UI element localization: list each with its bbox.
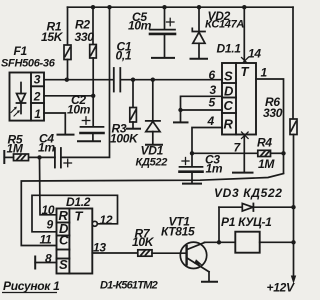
node relay/rail [291, 240, 295, 244]
resistor R5 [4, 154, 28, 161]
svg-text:3: 3 [34, 73, 41, 87]
F1 light arrows [11, 107, 20, 116]
svg-text:0,1: 0,1 [116, 49, 132, 63]
svg-text:9: 9 [47, 218, 54, 232]
F1 photodiode [17, 83, 26, 114]
wire D1.1 pin 3 (D input) [181, 96, 223, 110]
zener VD2 [192, 7, 205, 58]
svg-text:R4: R4 [257, 136, 272, 150]
svg-text:12: 12 [100, 213, 113, 227]
node rail/VD2 [197, 5, 201, 9]
svg-text:C: C [224, 98, 234, 113]
resistor R4 [258, 150, 284, 156]
ground (R3) [127, 128, 140, 130]
svg-text:100K: 100K [110, 132, 139, 146]
diode VD1 [146, 80, 160, 144]
svg-text:VD1: VD1 [141, 144, 164, 158]
svg-text:1: 1 [261, 66, 268, 80]
svg-text:SFH506-36: SFH506-36 [1, 58, 56, 70]
svg-text:1M: 1M [258, 157, 275, 171]
IC D1.2 box [57, 209, 93, 274]
IR receiver F1 box [10, 73, 45, 121]
capacitor C1 [114, 68, 121, 92]
node VD3/rail [291, 205, 295, 209]
node main/R1 [65, 78, 69, 82]
capacitor C5 [150, 7, 175, 57]
capacitor C3 [180, 153, 203, 182]
C2 plus sign [82, 117, 90, 124]
wire D1.2 pin 13 to R7 [92, 252, 138, 254]
node F1 pin2/C2 [91, 94, 95, 98]
node D/C ground [178, 108, 182, 112]
node rail/R2 [91, 5, 95, 9]
wire relay to rail [260, 241, 294, 243]
wire R2 bottom to C2 [92, 58, 94, 126]
node rail/drop line [107, 5, 111, 9]
ground (C2) [78, 140, 100, 142]
C4 plus sign [64, 159, 72, 166]
svg-text:R: R [224, 117, 234, 132]
diode VD3 [219, 204, 294, 212]
ground (VD2) [191, 58, 208, 60]
op IC D1.1 box [222, 63, 256, 135]
wire D1.1 out to D1.2 pin 11 (long net) [21, 174, 283, 246]
resistor R3 [130, 80, 137, 128]
svg-text:T: T [241, 64, 250, 79]
svg-text:1m: 1m [206, 162, 223, 176]
svg-text:C: C [59, 233, 69, 248]
svg-text:4: 4 [207, 114, 215, 128]
svg-text:T: T [75, 209, 84, 224]
pin 7 x-mark [242, 132, 249, 139]
svg-text:10K: 10K [132, 235, 155, 249]
wire F1 pin 2 to C2 [44, 95, 93, 97]
svg-text:10m: 10m [128, 19, 152, 33]
transistor VT1 [180, 242, 209, 281]
pin 14 x-mark [242, 58, 249, 65]
resistor R1 [64, 7, 71, 80]
wire right rail lower (+12V feed) [293, 135, 295, 277]
svg-text:11: 11 [40, 233, 52, 247]
ground (D1.1 pin 7) [233, 172, 253, 174]
node rail/pin14 [242, 5, 246, 9]
wire VD3 branch up [218, 207, 220, 242]
wire C4 node to D1.2 pin 10 [40, 157, 57, 214]
svg-text:КС147А: КС147А [205, 19, 244, 31]
capacitor C4 [29, 148, 61, 168]
svg-text:D: D [224, 84, 234, 99]
ground (VT1 emitter) [202, 281, 217, 283]
wire node R4/C3 to R4 [192, 152, 258, 154]
node C3/R4/pin4 [190, 151, 194, 155]
svg-text:D1.1: D1.1 [217, 42, 242, 56]
resistor R6 [290, 119, 297, 135]
capacitor C2 [81, 127, 104, 140]
wire supply drop line (rail to C4 net) [61, 7, 110, 157]
wire D1.1 pin 1 output [256, 79, 284, 173]
svg-text:Р1 КУЦ-1: Р1 КУЦ-1 [221, 215, 272, 229]
svg-text:13: 13 [93, 241, 106, 255]
node R4/pin1 [281, 151, 285, 155]
svg-text:10: 10 [42, 203, 55, 217]
svg-text:330: 330 [263, 106, 283, 120]
svg-text:+12V: +12V [267, 281, 295, 295]
svg-text:VD3 КД522: VD3 КД522 [214, 186, 283, 200]
svg-text:2: 2 [33, 90, 41, 104]
resistor R2 [90, 7, 97, 58]
ground (F1 pin 1) [58, 134, 74, 136]
C3 plus sign [182, 158, 189, 165]
node main/R3 [131, 78, 135, 82]
node rail/C5 [162, 5, 166, 9]
svg-text:1M: 1M [7, 142, 24, 156]
svg-text:1: 1 [34, 107, 41, 121]
pin 12 inversion bubble [92, 221, 97, 226]
svg-text:1m: 1m [38, 141, 55, 155]
svg-text:330: 330 [75, 30, 95, 44]
wire D1.2 pin 8 [35, 262, 56, 264]
wire D1.1 pin 7 ground [243, 135, 245, 172]
wire main net (C1 right to D1.1 pin 6) [121, 79, 223, 81]
node C4/pin10 [37, 155, 41, 159]
svg-text:D1-К561ТМ2: D1-К561ТМ2 [100, 280, 158, 292]
ground (VD1) [146, 144, 162, 146]
svg-text:10m: 10m [67, 103, 91, 117]
resistor R7 [138, 250, 187, 256]
svg-text:5: 5 [209, 96, 216, 110]
wire F1 pin 1 to ground [44, 113, 65, 134]
svg-text:КТ815: КТ815 [161, 225, 195, 239]
wire collector to relay [205, 241, 236, 243]
svg-text:S: S [224, 69, 233, 84]
wire D1.1 pin 5 (C input) [181, 110, 223, 122]
ground (C5) [152, 57, 174, 59]
svg-text:D1.2: D1.2 [66, 195, 91, 209]
svg-text:Рисунок 1: Рисунок 1 [3, 279, 60, 293]
ground (D1.2 pin 8 bar) [34, 257, 36, 269]
relay P1 box [235, 232, 259, 253]
svg-text:КД522: КД522 [136, 157, 168, 169]
wire right rail upper (to R6) [292, 7, 294, 119]
svg-text:F1: F1 [14, 44, 28, 58]
wire D1.1 pin 14 from rail [243, 7, 245, 62]
ground (R5 left bar) [3, 151, 5, 163]
wire main net (F1 pin3 / R1 / C1 left) [44, 79, 114, 81]
svg-text:6: 6 [209, 68, 216, 82]
wire D1.1 pin 4 (R input) [192, 128, 222, 154]
ground (D1.1 D/C inputs) [174, 121, 188, 123]
svg-text:15K: 15K [41, 30, 64, 44]
svg-text:14: 14 [248, 47, 261, 61]
wire D1.2 pin 12 feedback to pin 9 [32, 195, 118, 232]
wire top supply rail [68, 6, 294, 8]
svg-text:S: S [59, 257, 68, 272]
+12V arrow [291, 276, 296, 284]
ground (C3) [183, 183, 201, 185]
node collector/VD3 [217, 240, 221, 244]
node main/VD1 [151, 78, 155, 82]
svg-text:8: 8 [45, 252, 52, 266]
C5 plus sign [167, 18, 175, 25]
